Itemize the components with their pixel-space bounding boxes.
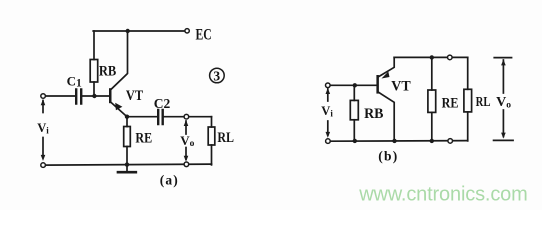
node dot RE bottom (b) xyxy=(430,139,434,143)
transistor VT (a) emitter arrowhead xyxy=(115,103,122,111)
wire RL branch lower (a) xyxy=(211,145,213,165)
terminal output bottom rail (b) xyxy=(448,139,453,144)
node dot collector bottom (b) xyxy=(392,139,396,143)
transistor VT (a) base bar xyxy=(109,88,112,103)
Vi dimension upper arrow line (a) xyxy=(42,101,44,113)
wire RE branch lower (b) xyxy=(431,112,433,140)
Vo dimension lower arrow line (a) xyxy=(185,148,187,160)
transistor VT (b) emitter lead up xyxy=(379,57,394,76)
terminal input top (a) xyxy=(41,94,46,99)
svg-text:Vi: Vi xyxy=(37,121,49,136)
wire RL branch upper (b) xyxy=(467,57,469,89)
terminal input bottom (b) xyxy=(326,139,331,144)
wire RL branch lower (b) xyxy=(467,112,469,141)
Vi arrowhead up (b) xyxy=(326,88,331,94)
wire C1 to base (a) xyxy=(83,95,110,97)
terminal output bottom (a) xyxy=(184,162,189,167)
svg-text:VT: VT xyxy=(391,79,411,95)
wire emitter node to C2 (a) xyxy=(127,116,157,118)
svg-text:(a): (a) xyxy=(160,173,178,188)
node dot top rail / collector (a) xyxy=(126,29,130,33)
svg-text:Vo: Vo xyxy=(180,133,194,149)
Vo dimension top bar (b) xyxy=(494,57,511,59)
terminal output top rail (b) xyxy=(448,55,453,60)
terminal EC (a) xyxy=(185,29,189,33)
resistor RL (b) xyxy=(464,89,472,112)
svg-text:RE: RE xyxy=(442,96,459,112)
node dot RB bottom (b) xyxy=(353,139,357,143)
wire top rail (a) xyxy=(93,30,185,32)
Vi arrowhead down (b) xyxy=(326,132,331,138)
Vo dimension upper arrow line (a) xyxy=(185,121,187,134)
svg-text:RL: RL xyxy=(476,94,491,109)
resistor RL (a) xyxy=(208,127,215,145)
node dot RB top (b) xyxy=(353,83,357,87)
resistor RE (b) xyxy=(428,90,436,112)
wire RE branch lower (a) xyxy=(126,147,128,165)
Vo arrowhead down (a) xyxy=(184,156,189,162)
wire RE branch upper (a) xyxy=(126,117,128,127)
Vi arrowhead up (a) xyxy=(41,99,46,105)
Vo arrowhead up (b) xyxy=(501,59,506,65)
terminal input top (b) xyxy=(326,83,331,88)
wire RB branch lower (b) xyxy=(353,120,355,141)
wire RB branch upper (a) xyxy=(93,31,95,60)
node dot emitter (a) xyxy=(125,115,129,119)
transistor VT (a) emitter lead xyxy=(111,103,127,117)
svg-text:C1: C1 xyxy=(67,73,82,89)
wire C2 to RL corner (a) xyxy=(164,116,212,118)
wire bottom rail (b) xyxy=(330,140,468,143)
svg-text:RE: RE xyxy=(135,131,152,147)
ground bar (a) xyxy=(118,171,136,174)
node dot RE top (b) xyxy=(430,55,434,59)
svg-text:(b): (b) xyxy=(378,149,397,164)
svg-text:EC: EC xyxy=(196,27,212,44)
wire top rail (b) xyxy=(394,56,468,58)
svg-text:RB: RB xyxy=(364,106,384,122)
wire RE branch upper (b) xyxy=(431,57,433,90)
svg-text:C2: C2 xyxy=(154,96,171,111)
wire input to C1 (a) xyxy=(45,95,74,97)
svg-text:RB: RB xyxy=(99,63,116,79)
wire RB branch upper (b) xyxy=(353,85,355,100)
Vi arrowhead down (a) xyxy=(41,155,46,161)
terminal output top (a) xyxy=(184,114,189,119)
resistor RB (a) xyxy=(90,60,98,83)
wire bottom rail (a) xyxy=(45,164,211,165)
Vi dimension lower arrow line (a) xyxy=(42,138,44,158)
svg-text:www.cntronics.com: www.cntronics.com xyxy=(358,183,527,205)
resistor RE (a) xyxy=(124,127,131,147)
capacitor C2 plates xyxy=(158,110,163,124)
Vo arrowhead up (a) xyxy=(184,120,189,126)
node dot RB/base (a) xyxy=(92,94,96,98)
Vi dimension lower arrow line (b) xyxy=(327,121,329,135)
transistor VT (a) collector lead xyxy=(111,31,127,89)
Vo dimension upper arrow line (b) xyxy=(502,60,504,93)
Vo arrowhead down (b) xyxy=(501,133,506,139)
transistor VT (b) base bar xyxy=(376,75,379,94)
capacitor C1 plates xyxy=(76,90,81,104)
resistor RB (b) xyxy=(350,100,358,119)
transistor VT (b) emitter arrowhead xyxy=(382,72,390,79)
label circled 3 xyxy=(210,68,225,83)
wire RB branch lower (a) xyxy=(93,82,95,96)
svg-text:Vi: Vi xyxy=(321,104,333,119)
Vi dimension upper arrow line (b) xyxy=(327,89,329,101)
Vo dimension lower arrow line (b) xyxy=(502,110,504,137)
ground stem (a) xyxy=(126,165,128,172)
Vo dimension bottom bar (b) xyxy=(494,139,513,141)
svg-text:3: 3 xyxy=(213,69,220,84)
terminal input bottom (a) xyxy=(41,163,46,168)
wire input to base (b) xyxy=(330,84,376,86)
transistor VT (b) collector lead down xyxy=(379,93,394,141)
svg-text:VT: VT xyxy=(126,88,143,104)
svg-text:RL: RL xyxy=(217,130,234,146)
node dot RE/ground bottom (a) xyxy=(125,162,129,166)
svg-text:Vo: Vo xyxy=(496,95,511,110)
wire RL branch upper (a) xyxy=(211,117,213,127)
